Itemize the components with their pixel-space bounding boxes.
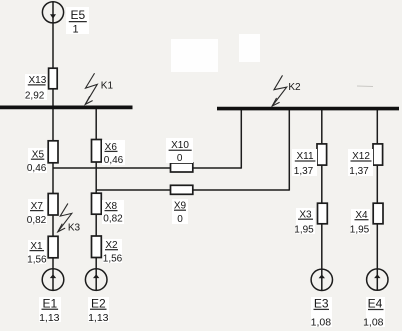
- svg-text:0,46: 0,46: [104, 155, 124, 166]
- svg-text:E5: E5: [70, 8, 85, 22]
- svg-text:1,95: 1,95: [350, 225, 370, 236]
- svg-text:1,08: 1,08: [311, 316, 332, 328]
- svg-text:0: 0: [177, 153, 183, 164]
- svg-text:1: 1: [72, 24, 78, 36]
- svg-text:0,46: 0,46: [27, 163, 47, 174]
- svg-text:1,95: 1,95: [294, 225, 314, 236]
- svg-text:E3: E3: [314, 297, 329, 311]
- svg-text:E4: E4: [368, 297, 383, 311]
- svg-text:2,92: 2,92: [25, 90, 45, 101]
- svg-text:K1: K1: [101, 80, 114, 91]
- svg-text:X12: X12: [352, 151, 370, 162]
- svg-text:0,82: 0,82: [27, 215, 47, 226]
- svg-text:0,82: 0,82: [103, 214, 123, 225]
- svg-text:1,08: 1,08: [363, 317, 384, 329]
- svg-text:E1: E1: [42, 297, 57, 311]
- svg-text:1,13: 1,13: [88, 312, 109, 324]
- svg-text:K2: K2: [288, 82, 301, 93]
- svg-text:E2: E2: [91, 297, 106, 311]
- svg-text:0: 0: [177, 214, 183, 225]
- svg-text:1,56: 1,56: [103, 254, 123, 265]
- svg-text:1,37: 1,37: [294, 166, 314, 177]
- svg-text:X10: X10: [171, 140, 189, 151]
- svg-text:1,13: 1,13: [39, 312, 60, 324]
- svg-text:1,37: 1,37: [349, 166, 369, 177]
- svg-text:X11: X11: [296, 151, 313, 162]
- svg-text:1,56: 1,56: [27, 254, 47, 265]
- svg-text:K3: K3: [68, 222, 81, 233]
